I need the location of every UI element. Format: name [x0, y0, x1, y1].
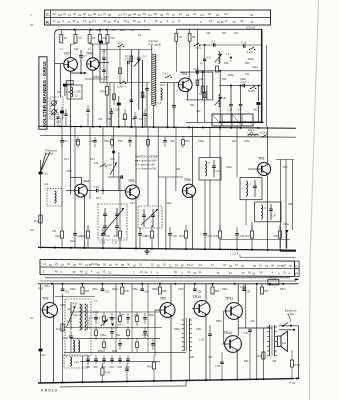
top rail upper-right — [176, 28, 261, 30]
capacitor C46 — [203, 233, 207, 235]
resistor R48 — [159, 284, 161, 287]
svg-text:C56: C56 — [197, 291, 202, 294]
wire TR7 base stub — [55, 63, 64, 65]
position table C cell — [295, 261, 300, 269]
svg-text:S3.3: S3.3 — [110, 158, 116, 161]
svg-text:C2a: C2a — [74, 48, 79, 51]
svg-text:30: 30 — [133, 19, 136, 23]
svg-text:C.17: C.17 — [241, 81, 247, 84]
wire x142.5 upper — [142, 60, 144, 127]
svg-text:C.37: C.37 — [112, 242, 118, 245]
svg-text:S1.4: S1.4 — [96, 76, 102, 79]
resistor R51 — [95, 330, 98, 336]
capacitor C47b — [110, 317, 114, 319]
resistor R50 — [136, 316, 139, 322]
resistor R6 — [66, 81, 73, 84]
svg-text:C47c: C47c — [134, 314, 140, 317]
wire right vert — [298, 326, 300, 379]
svg-text:K R 0 1 9: K R 0 1 9 — [41, 389, 57, 393]
capacitor C51 — [62, 284, 64, 289]
svg-text:R27: R27 — [82, 235, 87, 238]
resistor R31 — [150, 231, 153, 238]
svg-text:67: 67 — [138, 13, 141, 17]
svg-text:R: R — [295, 272, 298, 276]
switch S203 — [165, 77, 166, 78]
transistor TR5 — [126, 185, 140, 199]
capacitor C44 — [138, 233, 142, 235]
resistor R22 — [39, 215, 42, 223]
wire TR10 emitter — [205, 316, 207, 380]
svg-text:R45: R45 — [125, 290, 130, 293]
IF can L7/L8 — [240, 178, 262, 200]
wire upper vertical — [109, 83, 111, 127]
arrow feed right — [295, 278, 299, 280]
svg-text:VA1034: VA1034 — [269, 277, 278, 280]
svg-text:S.201: S.201 — [247, 51, 254, 54]
svg-text:47: 47 — [172, 13, 175, 17]
svg-text:18: 18 — [143, 12, 146, 16]
svg-text:C.56: C.56 — [199, 339, 205, 342]
svg-text:TR7: TR7 — [64, 52, 71, 56]
svg-text:L31: L31 — [44, 183, 49, 186]
svg-text:10: 10 — [155, 19, 158, 23]
resistor R33 — [184, 231, 187, 238]
svg-text:R29: R29 — [114, 235, 119, 238]
capacitor C33 — [96, 189, 98, 193]
svg-text:R61: R61 — [190, 356, 195, 359]
svg-text:R17: R17 — [222, 32, 227, 35]
capacitor C52 — [101, 284, 103, 289]
svg-text:R53: R53 — [215, 290, 220, 293]
svg-text:C30a: C30a — [66, 170, 72, 173]
resistor R49 — [119, 316, 122, 322]
interstage transformer T4 — [183, 318, 185, 351]
capacitor C16 — [172, 105, 176, 107]
bottom caps row — [86, 358, 90, 360]
svg-text:S.205: S.205 — [248, 90, 255, 93]
svg-text:R18: R18 — [224, 62, 229, 65]
svg-text:C38: C38 — [170, 140, 175, 143]
svg-text:64: 64 — [209, 19, 212, 23]
capacitor C48 — [235, 233, 239, 235]
mid rail 2 — [40, 135, 296, 137]
wire TR12 base — [223, 343, 225, 345]
coil box aerial — [47, 189, 62, 206]
svg-text:C25: C25 — [139, 118, 144, 121]
svg-text:C.58: C.58 — [215, 365, 221, 368]
svg-text:C31: C31 — [245, 73, 250, 76]
svg-text:TR1: TR1 — [181, 72, 188, 76]
capacitor C39 — [73, 233, 77, 235]
svg-text:C43a: C43a — [244, 140, 250, 143]
transistor TR2 — [258, 163, 271, 176]
svg-text:S3.2: S3.2 — [90, 158, 96, 161]
capacitor C26a — [203, 58, 206, 60]
wire row y177 — [108, 176, 122, 178]
capacitor C55b — [143, 331, 147, 333]
svg-text:9.1: 9.1 — [148, 13, 152, 17]
resistor R24 — [60, 231, 63, 238]
svg-text:44: 44 — [108, 20, 111, 24]
wire upper vertical — [138, 50, 140, 111]
transistor TR3 — [43, 303, 58, 318]
wire can1 top — [209, 127, 211, 158]
svg-text:C46: C46 — [208, 235, 213, 238]
IF can L9/L10 — [255, 202, 281, 222]
svg-text:9V: 9V — [292, 381, 296, 385]
capacitor C1 hang — [75, 30, 77, 35]
svg-text:R48: R48 — [162, 290, 167, 293]
svg-text:R63: R63 — [94, 367, 99, 369]
svg-text:L201: L201 — [120, 29, 126, 32]
resistor R46 — [103, 316, 106, 322]
capacitor C45 — [168, 233, 172, 235]
svg-text:C.64: C.64 — [40, 354, 46, 357]
svg-text:C40a: C40a — [198, 140, 204, 143]
wire x263.4 v — [262, 328, 264, 379]
wire x204.6 — [204, 45, 206, 122]
voltage table frame — [45, 10, 271, 25]
wire mid vertical — [236, 127, 238, 178]
capacitor C56b sym — [208, 333, 212, 335]
resistor R59 — [290, 360, 293, 367]
svg-text:5.2 m: 5.2 m — [196, 48, 202, 50]
wire osc row2 — [195, 70, 262, 72]
svg-text:aerial: aerial — [47, 152, 54, 156]
svg-text:R39: R39 — [274, 235, 279, 238]
resistor R8 hang — [189, 29, 191, 33]
resistor R2 hang — [89, 30, 91, 35]
svg-text:47: 47 — [103, 12, 106, 16]
svg-text:TR3: TR3 — [42, 297, 49, 301]
capacitor C40 — [69, 335, 73, 337]
svg-text:56: 56 — [108, 13, 111, 17]
svg-text:U.S.1: U.S.1 — [162, 73, 169, 76]
wire mid vertical — [89, 127, 91, 200]
svg-text:C54: C54 — [144, 291, 149, 294]
wire left mid — [40, 160, 42, 249]
resistor R56 — [136, 342, 139, 348]
svg-text:R23: R23 — [63, 140, 68, 143]
svg-text:8.2: 8.2 — [88, 13, 92, 17]
svg-text:T.2: T.2 — [143, 95, 147, 99]
wire TR2 emitter — [267, 176, 269, 249]
wire mid vertical — [219, 127, 221, 232]
telescopic aerial — [41, 152, 51, 172]
svg-text:30: 30 — [103, 19, 106, 23]
transistor TR4 — [75, 184, 88, 197]
wire TR3 emitter — [53, 317, 55, 383]
svg-text:P: P — [31, 13, 33, 17]
svg-text:TR2: TR2 — [258, 157, 265, 161]
svg-text:45: 45 — [250, 13, 253, 17]
svg-text:41: 41 — [193, 12, 196, 16]
resistor R60 — [152, 362, 155, 369]
svg-text:S4.2: S4.2 — [130, 202, 136, 205]
wire TR7 collector up — [70, 44, 72, 57]
svg-text:C.14: C.14 — [227, 109, 233, 112]
svg-text:C2a: C2a — [103, 37, 108, 40]
svg-text:C57a: C57a — [178, 288, 184, 291]
svg-text:R31: R31 — [146, 235, 151, 238]
svg-text:C22: C22 — [98, 118, 103, 121]
thermistor box — [268, 280, 279, 285]
svg-text:C.18: C.18 — [237, 109, 243, 112]
svg-text:TR10: TR10 — [193, 295, 201, 299]
resistor R9 — [141, 92, 144, 98]
svg-text:MR2: MR2 — [112, 350, 118, 353]
wire upper vertical — [113, 83, 115, 106]
svg-text:R24: R24 — [56, 235, 61, 238]
mid bottom rail dots — [54, 247, 56, 249]
svg-text:S.204: S.204 — [117, 86, 124, 89]
svg-text:R46a: R46a — [112, 288, 118, 291]
FM aerial ladder coil — [151, 54, 153, 105]
volume control box — [65, 299, 91, 356]
svg-text:TR8: TR8 — [86, 52, 93, 56]
svg-text:C28a: C28a — [240, 78, 246, 81]
wire TR7 base — [55, 63, 64, 65]
svg-text:C27: C27 — [234, 32, 239, 35]
svg-text:C.41: C.41 — [216, 170, 222, 173]
svg-text:R45a: R45a — [60, 304, 66, 307]
voltage table values — [52, 12, 253, 24]
transistor TR7 — [64, 58, 78, 72]
svg-text:R49a: R49a — [152, 288, 158, 291]
switch S201 — [249, 49, 250, 50]
svg-text:3.4: 3.4 — [200, 13, 204, 17]
svg-text:L4b: L4b — [222, 97, 227, 100]
wire mid vertical — [119, 177, 121, 225]
svg-text:R32: R32 — [232, 140, 237, 143]
svg-text:C: C — [295, 264, 298, 268]
svg-text:TR12: TR12 — [224, 331, 232, 335]
svg-text:C202: C202 — [114, 108, 121, 112]
resistor R39 — [278, 231, 281, 238]
wire h y361 — [80, 361, 160, 363]
svg-text:10: 10 — [57, 20, 60, 24]
wire TR9 emitter — [170, 317, 172, 381]
svg-text:90: 90 — [154, 12, 157, 16]
switch S2 — [118, 46, 119, 47]
wire TR3 collector — [53, 284, 55, 303]
svg-text:MC.1: MC.1 — [254, 109, 261, 112]
wire x175.9 mid — [175, 177, 177, 191]
wire mid vertical — [175, 127, 177, 178]
capacitor C14 — [230, 86, 232, 104]
wire TR2 collector — [267, 127, 269, 164]
wire upper vertical — [103, 50, 105, 83]
capacitor C58 — [118, 343, 122, 345]
svg-text:56: 56 — [93, 12, 96, 16]
resistor R27 — [86, 231, 89, 238]
resistor R1 hang — [60, 30, 62, 35]
bottom rail — [38, 379, 294, 383]
wire TR9 collector — [170, 284, 172, 303]
wire TR10 base — [192, 308, 194, 310]
svg-text:R20: R20 — [245, 62, 250, 65]
svg-text:R57a: R57a — [280, 288, 286, 291]
svg-text:R43a: R43a — [70, 288, 76, 291]
capacitor C6 — [213, 43, 215, 47]
top rail upper-left — [55, 30, 150, 34]
svg-text:L36: L36 — [52, 230, 57, 233]
svg-text:C32: C32 — [196, 110, 201, 113]
earphone jack — [279, 325, 299, 327]
voltage table label divider — [50, 10, 52, 25]
svg-text:3.4: 3.4 — [224, 12, 228, 16]
diode D1 — [285, 230, 289, 233]
transistor TR6 — [182, 184, 195, 197]
svg-text:14: 14 — [68, 20, 71, 24]
rail dots upper-left — [73, 29, 75, 31]
svg-text:S3.1: S3.1 — [64, 158, 70, 161]
wire x280.4 — [279, 160, 281, 249]
svg-text:KOLSTER-BRANDES - KR019: KOLSTER-BRANDES - KR019 — [42, 61, 47, 127]
wire bottom vert extra1 — [115, 284, 117, 352]
capacitor C22a — [56, 116, 59, 118]
capacitor C17 — [242, 84, 244, 88]
coil L3 bumps — [161, 88, 163, 100]
svg-text:R22a: R22a — [70, 240, 76, 243]
svg-text:TR11: TR11 — [225, 297, 233, 301]
resistor R45 — [121, 284, 123, 287]
capacitor C49 — [126, 317, 130, 319]
wire upper vertical — [130, 50, 132, 127]
wire h y338 — [70, 337, 160, 339]
wire x113.6 seg — [113, 127, 115, 178]
svg-text:C51a: C51a — [44, 285, 50, 288]
wire TR10 collector — [205, 284, 207, 301]
resistor R42 sym — [61, 324, 64, 331]
svg-text:R53a: R53a — [174, 328, 180, 331]
svg-text:C53a: C53a — [92, 288, 98, 291]
svg-text:■■ = open for MW: ■■ = open for MW — [135, 159, 156, 163]
capacitor C30 — [39, 172, 43, 175]
svg-text:L.3: L.3 — [158, 101, 162, 105]
wire fm row — [100, 49, 152, 51]
wire mid vertical — [61, 127, 63, 226]
wire x286 — [285, 160, 287, 249]
black dot L24 — [112, 151, 115, 154]
position table values — [43, 262, 293, 276]
svg-text:R54a: R54a — [222, 288, 228, 291]
capacitor C18 — [240, 86, 242, 104]
bottom rail arrow — [295, 377, 300, 379]
svg-text:14: 14 — [113, 19, 116, 23]
capacitor C57 — [243, 284, 245, 289]
svg-text:45: 45 — [73, 12, 76, 16]
svg-text:38: 38 — [128, 13, 131, 17]
svg-text:R.26: R.26 — [73, 303, 79, 306]
svg-text:24: 24 — [133, 12, 136, 16]
svg-text:9.1: 9.1 — [123, 12, 127, 16]
svg-text:R.22: R.22 — [34, 220, 40, 223]
wire TR8 collector up — [92, 44, 94, 57]
ground mid — [146, 249, 148, 252]
gang box 2 — [138, 206, 162, 228]
switch S2m — [194, 45, 195, 46]
svg-text:R30: R30 — [185, 140, 190, 143]
svg-text:13: 13 — [124, 19, 127, 23]
capacitor C64 sym — [39, 349, 43, 352]
wire stub bottom — [60, 386, 186, 387]
svg-text:R.60: R.60 — [147, 366, 153, 369]
svg-text:45: 45 — [208, 12, 211, 16]
wire y277.8 — [45, 277, 290, 279]
wire y281 — [40, 280, 296, 282]
svg-text:TR9: TR9 — [160, 297, 167, 301]
capacitor C12 — [146, 83, 148, 89]
resistor R7 — [130, 56, 133, 62]
mid bottom rail — [38, 247, 296, 250]
wire row y177b — [158, 176, 183, 178]
wire x118.9 seg — [118, 152, 120, 190]
svg-text:R36: R36 — [283, 166, 288, 169]
svg-text:TR5: TR5 — [128, 179, 135, 183]
wire TR8 emitter — [92, 70, 94, 126]
svg-text:R33: R33 — [180, 235, 185, 238]
svg-text:R.59: R.59 — [295, 364, 301, 367]
svg-text:R19: R19 — [222, 78, 227, 81]
coil box L209 — [67, 85, 82, 99]
wire TR9 base — [155, 309, 160, 311]
wire x292.5 — [292, 160, 294, 231]
svg-text:24: 24 — [179, 12, 182, 16]
svg-text:15.17: 15.17 — [187, 263, 194, 267]
wire h y312 — [70, 311, 160, 313]
junction dot osc — [230, 57, 232, 59]
wire TR3 base — [41, 309, 43, 311]
wire x245.8 — [245, 284, 247, 328]
ferrite rod aerial box — [212, 114, 253, 126]
wire y99.9 row — [186, 99, 213, 101]
transistor TR1 — [179, 78, 193, 92]
mid rail2 hang parts — [60, 140, 63, 142]
trimmer arrow TR5 — [110, 163, 117, 175]
capacitor C21b — [86, 109, 89, 111]
svg-text:L.24: L.24 — [107, 164, 112, 167]
svg-text:24.25: 24.25 — [217, 20, 224, 24]
svg-text:R43: R43 — [85, 290, 90, 293]
wire can1 bot — [209, 180, 211, 249]
svg-text:C41a: C41a — [73, 315, 79, 317]
wire TR7-TR8 link — [71, 72, 87, 74]
bottom top rail dots — [51, 283, 53, 285]
position table mid line — [40, 267, 295, 269]
wire TR6 collector — [192, 127, 194, 185]
svg-text:R37: R37 — [246, 235, 251, 238]
diode box — [89, 318, 118, 328]
capacitor C25b — [143, 113, 146, 115]
mid rail 1 — [38, 126, 296, 128]
capacitor C9 — [102, 69, 105, 71]
switch S34 — [100, 166, 101, 167]
svg-text:R20a: R20a — [248, 58, 254, 61]
svg-text:L.209: L.209 — [75, 91, 82, 94]
svg-text:13: 13 — [250, 20, 253, 24]
resistor R3 hang — [107, 30, 109, 35]
svg-text:C54a: C54a — [142, 334, 148, 337]
svg-text:1 1 2 F: 1 1 2 F — [230, 252, 239, 256]
wire upper vertical — [127, 63, 129, 83]
svg-text:18: 18 — [186, 13, 189, 17]
wire TR5 emitter — [135, 199, 137, 249]
mid rail junction dots — [59, 125, 61, 127]
svg-text:41: 41 — [63, 12, 66, 16]
svg-text:C.61: C.61 — [244, 332, 250, 335]
svg-text:C34: C34 — [94, 162, 99, 165]
